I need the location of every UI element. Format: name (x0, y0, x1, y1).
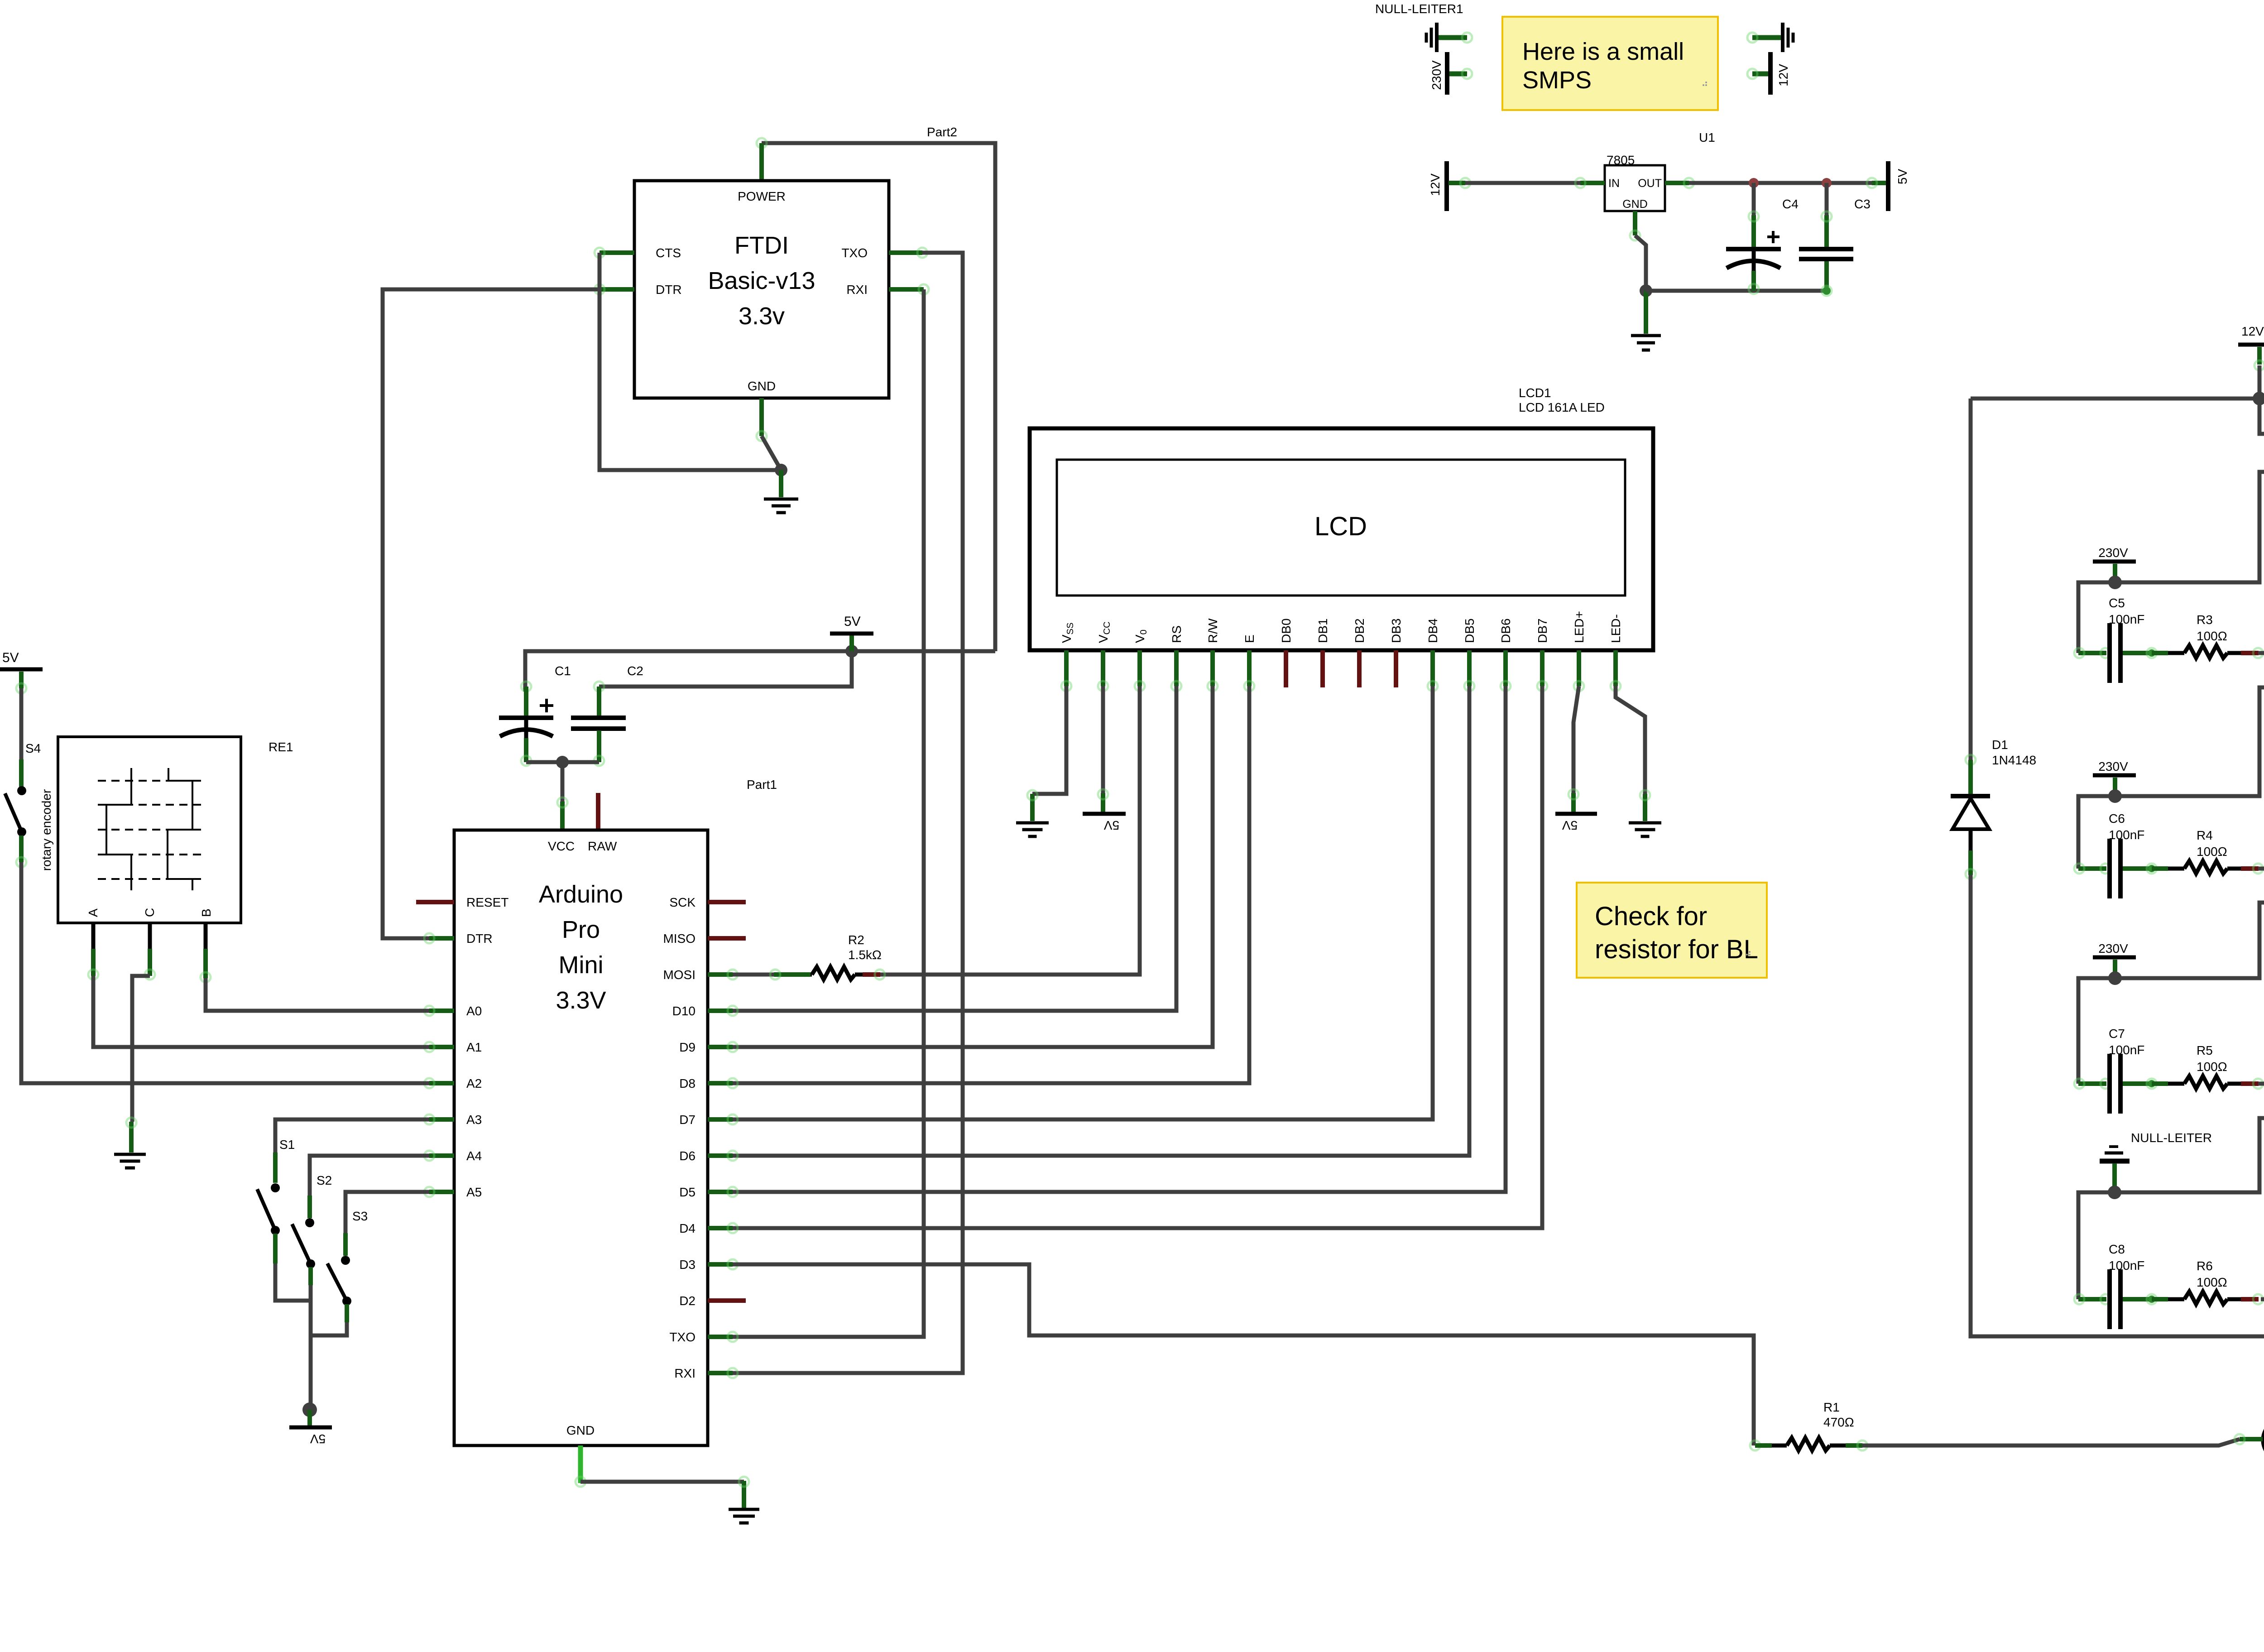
wire S4 to Arduino A2 (21, 862, 429, 1083)
svg-text:D9: D9 (679, 1040, 696, 1054)
wire junction to capacitor C K4 (2078, 1192, 2115, 1299)
svg-text:GND: GND (1622, 198, 1648, 211)
wire LCD Vss to ground (1027, 686, 1066, 821)
Arduino pin label A1 (466, 1040, 482, 1054)
wire FTDI TXO to Arduino RXI (733, 253, 963, 1373)
wire K3 output to grinder pin 3 (2258, 684, 2264, 869)
wire Arduino D3 to R1 (733, 1264, 1754, 1445)
svg-text:R3: R3 (2197, 613, 2213, 627)
rotary encoder waveform A trace (106, 768, 131, 890)
junction node C3 top (1822, 178, 1832, 188)
svg-text:12V: 12V (2241, 324, 2264, 338)
junction 230V node K3 (2108, 789, 2122, 803)
svg-text:R2: R2 (848, 933, 864, 947)
label S3 (352, 1209, 368, 1223)
junction FTDI ground node (775, 464, 787, 476)
7805 IN pin stub (1575, 178, 1605, 188)
Arduino pin label SCK (669, 895, 696, 909)
LCD pin E stub (1244, 650, 1254, 691)
label C7 100nF (2109, 1027, 2144, 1057)
junction 12V node (2253, 392, 2264, 405)
ground symbol LCD LED- (1629, 823, 1661, 836)
FTDI RXI pin stub (889, 284, 929, 294)
capacitor C6 100nF (2074, 839, 2120, 898)
module LCD1 box (1030, 428, 1653, 650)
resistor R6 100 (2184, 1292, 2227, 1304)
Arduino pin RXI stub (708, 1368, 738, 1378)
Arduino pin label MISO (663, 932, 696, 946)
label R5 100 (2197, 1043, 2227, 1074)
capacitor C4 wiring (1749, 183, 1759, 294)
wire 12V bar to junction (2258, 365, 2262, 399)
label S2 (317, 1173, 332, 1187)
LCD pin DB0 stub (unconnected) (1284, 650, 1288, 687)
wire junction to capacitor C K2 (2078, 978, 2115, 1084)
svg-text:D10: D10 (672, 1004, 696, 1018)
svg-text:NULL-LEITER1: NULL-LEITER1 (1375, 2, 1463, 16)
FTDI CTS pin stub (595, 248, 634, 258)
rotary encoder waveform dashed lines (98, 781, 206, 879)
svg-text:A5: A5 (466, 1185, 482, 1199)
Arduino pin label RXI (674, 1366, 696, 1380)
wire LCD LED- to ground (1616, 686, 1650, 821)
svg-text:DB6: DB6 (1499, 619, 1513, 643)
LCD pin label DB2 (1353, 619, 1367, 643)
svg-text:3.3v: 3.3v (739, 303, 785, 330)
capacitor C3 wiring (1822, 183, 1832, 296)
svg-text:MISO: MISO (663, 932, 696, 946)
LCD pin DB3 stub (unconnected) (1394, 650, 1398, 687)
wire LCD V0 to R2 (880, 686, 1140, 975)
svg-text:C5: C5 (2109, 596, 2125, 610)
LCD pin label R/W (1206, 618, 1220, 643)
wire LCD DB6 to Arduino D5 (733, 686, 1506, 1192)
wire 12V to 7805 IN (1449, 178, 1580, 188)
LCD pin label LED+ (1572, 611, 1586, 643)
power symbol 5V at S4 (0, 650, 43, 693)
junction 230V node K1 (2108, 576, 2122, 589)
svg-text:RESET: RESET (466, 895, 508, 909)
Arduino pin A2 stub (424, 1078, 454, 1088)
label C6 100nF (2109, 812, 2144, 842)
svg-text:R/W: R/W (1206, 618, 1220, 643)
Arduino pin label D5 (679, 1185, 696, 1199)
switch S3 (327, 1233, 351, 1322)
Arduino pin MOSI stub (708, 970, 738, 980)
svg-text:A3: A3 (466, 1113, 482, 1127)
capacitor C7 100nF (2074, 1054, 2120, 1114)
label LCD1 (1519, 386, 1605, 414)
label C5 100nF (2109, 596, 2144, 626)
capacitor C3 (ceramic) (1799, 249, 1853, 259)
svg-text:DB7: DB7 (1535, 619, 1549, 643)
capacitor C7 to resistor R5 wiring (2123, 1079, 2263, 1089)
capacitor C6 to resistor R4 wiring (2123, 864, 2263, 874)
svg-text:D8: D8 (679, 1076, 696, 1090)
Arduino pin A5 stub (424, 1187, 454, 1197)
svg-text:A1: A1 (466, 1040, 482, 1054)
svg-text:DB1: DB1 (1316, 619, 1330, 643)
LCD pin label LED- (1609, 614, 1623, 643)
Arduino pin D7 stub (708, 1114, 738, 1124)
Arduino DTR pin stub (424, 933, 454, 943)
svg-text:Basic-v13: Basic-v13 (708, 267, 815, 294)
svg-text:230V: 230V (2098, 546, 2128, 560)
svg-text:Part2: Part2 (927, 125, 957, 139)
power symbol 5V at LED+ (inverted) (1555, 814, 1597, 832)
power symbol 5V rail (830, 614, 873, 651)
svg-text:U1: U1 (1699, 130, 1715, 144)
Arduino SCK pin stub (unconnected) (708, 900, 746, 904)
power symbol 230V for K3 (2093, 759, 2136, 796)
svg-text:R6: R6 (2197, 1259, 2213, 1273)
wire FTDI POWER to Part2 5V rail (757, 138, 995, 651)
label R4 100 (2197, 828, 2227, 859)
svg-text:5V: 5V (1562, 818, 1578, 832)
Arduino pin label A3 (466, 1113, 482, 1127)
label C4 (1782, 197, 1799, 211)
Arduino pin D5 stub (708, 1187, 738, 1197)
wire 12V to K1 coil (2259, 399, 2264, 470)
ground symbol FTDI (764, 470, 798, 513)
wire D1 anode to Q1 collector node (1971, 875, 2264, 1336)
Arduino pin label D9 (679, 1040, 696, 1054)
label 7805 (1607, 153, 1635, 167)
resistor R2 (812, 967, 855, 980)
svg-text:5V: 5V (844, 614, 861, 629)
LCD pin DB7 stub (1537, 650, 1547, 691)
rotary encoder pin A stub (88, 923, 98, 980)
rotary encoder pin label B (199, 908, 213, 917)
label C8 100nF (2109, 1242, 2144, 1273)
ground symbol SMPS (1631, 291, 1661, 350)
svg-text:Part1: Part1 (747, 778, 777, 792)
svg-text:100Ω: 100Ω (2197, 629, 2227, 643)
Arduino pin A3 stub (424, 1114, 454, 1124)
svg-text:LCD: LCD (1314, 512, 1367, 541)
LCD pin label DB7 (1535, 619, 1549, 643)
svg-text:A: A (86, 908, 100, 917)
svg-text:R1: R1 (1823, 1400, 1840, 1414)
svg-text:RAW: RAW (588, 839, 617, 853)
svg-text:RE1: RE1 (269, 740, 293, 754)
capacitor C8 100nF (2074, 1269, 2120, 1329)
svg-text:230V: 230V (1429, 60, 1444, 90)
Arduino pin A0 stub (424, 1006, 454, 1016)
svg-text:D7: D7 (679, 1113, 696, 1127)
svg-text:D2: D2 (679, 1294, 696, 1308)
svg-text:A4: A4 (466, 1149, 482, 1163)
Arduino pin label TXO (669, 1330, 696, 1344)
wire FTDI RXI to Arduino TXO (733, 289, 924, 1337)
LCD pin DB5 stub (1464, 650, 1474, 691)
svg-text:D1: D1 (1992, 738, 2008, 752)
junction VCC node (556, 756, 569, 768)
label D1 1N4148 (1992, 738, 2036, 767)
LCD pin LED+ stub (1574, 650, 1584, 691)
Arduino pin label D3 (679, 1258, 696, 1272)
svg-text:230V: 230V (2098, 941, 2128, 956)
LCD pin label DB6 (1499, 619, 1513, 643)
svg-text:5V: 5V (310, 1432, 326, 1446)
LCD pin LED- stub (1611, 650, 1621, 691)
svg-text:CTS: CTS (656, 246, 681, 260)
LCD pin DB1 stub (unconnected) (1320, 650, 1325, 687)
power symbol 12V at 7805 input (1428, 161, 1447, 211)
wire LCD DB4 to Arduino D7 (733, 686, 1433, 1119)
wire K1 pin feed from junction (2115, 472, 2264, 582)
module rotary encoder RE1 box (39, 737, 241, 923)
svg-text:S1: S1 (279, 1138, 295, 1152)
label C2 (627, 664, 643, 678)
rotary encoder pin label A (86, 908, 100, 917)
Arduino RESET pin stub (unconnected) (416, 900, 454, 904)
ground symbol NULL-LEITER (inverted) (2100, 1147, 2130, 1192)
svg-text:D3: D3 (679, 1258, 696, 1272)
wire 5V to C2 (599, 651, 852, 687)
power symbol 5V at switches (inverted) (289, 1410, 332, 1446)
Arduino pin label A5 (466, 1185, 482, 1199)
svg-text:DB4: DB4 (1426, 619, 1440, 643)
svg-text:A0: A0 (466, 1004, 482, 1018)
wire K2 pin feed from junction (2115, 903, 2264, 978)
LCD pin DB2 stub (unconnected) (1357, 650, 1362, 687)
Arduino pin label A2 (466, 1076, 482, 1090)
label NULL-LEITER1 (1375, 2, 1463, 16)
rotary encoder pin label C (143, 908, 157, 917)
svg-text:5V: 5V (1104, 818, 1120, 832)
FTDI POWER pin stub (759, 143, 764, 181)
svg-text:DTR: DTR (466, 932, 493, 946)
svg-text:D5: D5 (679, 1185, 696, 1199)
LCD pin label RS (1170, 625, 1184, 643)
ground symbol NULL-LEITER1 (rotated left) (1426, 23, 1472, 52)
svg-text:C6: C6 (2109, 812, 2125, 826)
wire Arduino A3 to S1 (275, 1119, 429, 1153)
svg-text:1N4148: 1N4148 (1992, 753, 2036, 767)
svg-text:D4: D4 (679, 1221, 696, 1235)
svg-text:LCD1: LCD1 (1519, 386, 1551, 400)
svg-text:TXO: TXO (841, 246, 868, 260)
wire D1 flyback diode branch (1966, 399, 1976, 795)
LCD pin label DB5 (1463, 619, 1477, 643)
svg-text:3.3V: 3.3V (556, 987, 606, 1014)
Arduino pin A1 stub (424, 1042, 454, 1052)
resistor R1 wiring (1750, 1441, 1867, 1450)
module FTDI Basic-v13 box (634, 181, 889, 398)
Arduino pin label DTR (466, 932, 493, 946)
svg-text:C: C (143, 908, 157, 917)
FTDI GND pin stub (757, 398, 767, 441)
svg-text:LED+: LED+ (1572, 611, 1586, 643)
Arduino RAW pin stub (unconnected) (596, 793, 600, 830)
Arduino VCC pin stub (557, 797, 567, 830)
module Arduino Pro Mini box (454, 830, 708, 1445)
LCD pin RS stub (1171, 650, 1181, 691)
LCD pin label E (1242, 634, 1257, 643)
capacitor C5 to resistor R3 wiring (2123, 648, 2263, 658)
Arduino pin D3 stub (708, 1259, 738, 1269)
Arduino GND wire (green) (576, 1445, 744, 1487)
wire K1 output to grinder pin 2 (2258, 638, 2264, 653)
wire S3 to chain (311, 1322, 347, 1335)
junction switches 5V node (302, 1402, 317, 1417)
Arduino pin label A4 (466, 1149, 482, 1163)
7805 OUT pin stub (1665, 178, 1694, 188)
Arduino pin label D4 (679, 1221, 696, 1235)
wire LCD Vcc to 5V (1098, 686, 1108, 812)
wire S2 to 5V junction (309, 1285, 313, 1410)
LCD pin V0 stub (1135, 650, 1145, 691)
svg-text:NULL-LEITER: NULL-LEITER (2131, 1131, 2212, 1145)
Arduino pin TXO stub (708, 1332, 738, 1342)
capacitor C2 wiring top (594, 682, 604, 716)
wire S1 to S2 chain (275, 1263, 311, 1301)
svg-text:DB0: DB0 (1279, 619, 1293, 643)
LCD pin label DB3 (1389, 619, 1403, 643)
junction node C4 top (1749, 178, 1759, 188)
capacitor C1 wiring bottom (521, 720, 531, 766)
svg-text:GND: GND (748, 379, 776, 393)
wire FTDI DTR to Arduino DTR (383, 289, 600, 938)
resistor R3 100 (2184, 645, 2227, 658)
svg-text:C1: C1 (555, 664, 571, 678)
switch S1 (257, 1153, 280, 1263)
wire encoder A to Arduino A1 (93, 976, 429, 1047)
wire LCD DB5 to Arduino D6 (733, 686, 1469, 1156)
resistor R2 wiring (733, 970, 885, 980)
svg-text:RXI: RXI (674, 1366, 696, 1380)
junction 5V rail node (845, 645, 858, 658)
label Part1 (747, 778, 777, 792)
wire 5V rail (525, 651, 995, 692)
svg-text:DB2: DB2 (1353, 619, 1367, 643)
svg-text:12V: 12V (1776, 64, 1790, 86)
wire 7805 GND to ground (1635, 235, 1646, 291)
wire SMPS ground rail to capacitors (1646, 289, 1826, 293)
ground symbol Arduino GND (729, 1477, 759, 1523)
rotary encoder waveform B trace (168, 768, 192, 890)
wire LCD DB7 to Arduino D4 (733, 686, 1542, 1228)
wire 7805 OUT to 5V (1689, 181, 1872, 185)
diode D1 1N4148 (1951, 796, 1990, 879)
LCD pin DB4 stub (1428, 650, 1438, 691)
svg-text:100nF: 100nF (2109, 1258, 2144, 1273)
svg-text:230V: 230V (2098, 759, 2128, 773)
Arduino D2 pin stub (unconnected) (708, 1298, 746, 1303)
label Part2 (927, 125, 957, 139)
wire LCD E to Arduino D8 (733, 686, 1249, 1083)
ground symbol SMPS right (rotated right) (1747, 23, 1793, 52)
svg-text:POWER: POWER (738, 189, 786, 203)
svg-text:5V: 5V (2, 650, 19, 665)
svg-text:100nF: 100nF (2109, 828, 2144, 842)
svg-text:OUT: OUT (1638, 177, 1662, 190)
Arduino pin A4 stub (424, 1151, 454, 1161)
wire FTDI CTS to GND junction (600, 253, 781, 470)
Arduino pin D6 stub (708, 1151, 738, 1161)
switch S2 (292, 1196, 315, 1285)
wire Arduino A5 to S3 (345, 1192, 429, 1233)
svg-text:1.5kΩ: 1.5kΩ (848, 948, 882, 962)
svg-text:DB5: DB5 (1463, 619, 1477, 643)
svg-text:TXO: TXO (669, 1330, 696, 1344)
svg-text:100nF: 100nF (2109, 612, 2144, 626)
wire R1 to Q1 base (1862, 1439, 2240, 1445)
note Here is a small SMPS (1502, 17, 1718, 110)
FTDI TXO pin stub (889, 248, 927, 258)
svg-text:SCK: SCK (669, 895, 696, 909)
svg-text:C2: C2 (627, 664, 643, 678)
7805 GND pin stub (1630, 211, 1640, 240)
svg-text:MOSI: MOSI (663, 968, 696, 982)
LCD pin Vcc stub (1098, 650, 1108, 691)
svg-text:100Ω: 100Ω (2197, 1275, 2227, 1289)
Arduino pin D9 stub (708, 1042, 738, 1052)
svg-text:C8: C8 (2109, 1242, 2125, 1256)
Arduino pin label D2 (679, 1294, 696, 1308)
wire C1 C2 to Arduino VCC (526, 762, 599, 802)
power symbol 230V for K1 (2093, 546, 2136, 582)
svg-text:LCD 161A LED: LCD 161A LED (1519, 400, 1605, 414)
capacitor C1 (polarized) (499, 699, 553, 736)
LCD pin label DB0 (1279, 619, 1293, 643)
svg-text:S4: S4 (25, 741, 41, 755)
wire 12V to D1 (1971, 397, 2259, 401)
LCD pin DB6 stub (1501, 650, 1511, 691)
label C3 (1854, 197, 1871, 211)
label S4 (25, 741, 41, 755)
power symbol 230V input (1429, 52, 1472, 95)
LCD pin label V0 (1133, 629, 1149, 643)
svg-text:GND: GND (566, 1423, 595, 1437)
svg-text:Mini: Mini (558, 951, 603, 979)
capacitor C8 to resistor R6 wiring (2123, 1294, 2263, 1304)
svg-text:12V: 12V (1428, 173, 1442, 196)
power symbol 12V relays (2238, 324, 2264, 370)
ground symbol LCD Vss (1016, 823, 1049, 836)
transistor Q1 BC337 (2235, 1419, 2264, 1468)
svg-text:DB3: DB3 (1389, 619, 1403, 643)
note Check for resistor for BL (1577, 883, 1767, 978)
label U1 (1699, 130, 1715, 144)
svg-text:R5: R5 (2197, 1043, 2213, 1057)
label S1 (279, 1138, 295, 1152)
Arduino pin label D7 (679, 1113, 696, 1127)
Arduino pin label D8 (679, 1076, 696, 1090)
Arduino MISO pin stub (unconnected) (708, 936, 746, 941)
label R2 1.5k (848, 933, 882, 962)
wire K3 pin feed from junction (2115, 687, 2264, 796)
Arduino pin D8 stub (708, 1078, 738, 1088)
resistor R5 100 (2184, 1076, 2227, 1089)
svg-text:Arduino: Arduino (539, 881, 623, 908)
Arduino pin label RESET (466, 895, 508, 909)
junction 230V node K2 (2108, 971, 2122, 985)
svg-text:470Ω: 470Ω (1823, 1415, 1854, 1429)
LCD pin Vss stub (1061, 650, 1071, 691)
junction NULL-LEITER node (2108, 1186, 2121, 1199)
capacitor C2 wiring bottom (594, 730, 604, 766)
capacitor C4 (polarized) (1726, 231, 1781, 268)
svg-text:C4: C4 (1782, 197, 1799, 211)
svg-text:resistor for BL: resistor for BL (1595, 935, 1758, 964)
label R1 470 (1823, 1400, 1854, 1429)
svg-text:S2: S2 (317, 1173, 332, 1187)
LCD pin label DB4 (1426, 619, 1440, 643)
rotary encoder pin B stub (201, 923, 211, 982)
rotary encoder pin C stub (145, 923, 155, 980)
